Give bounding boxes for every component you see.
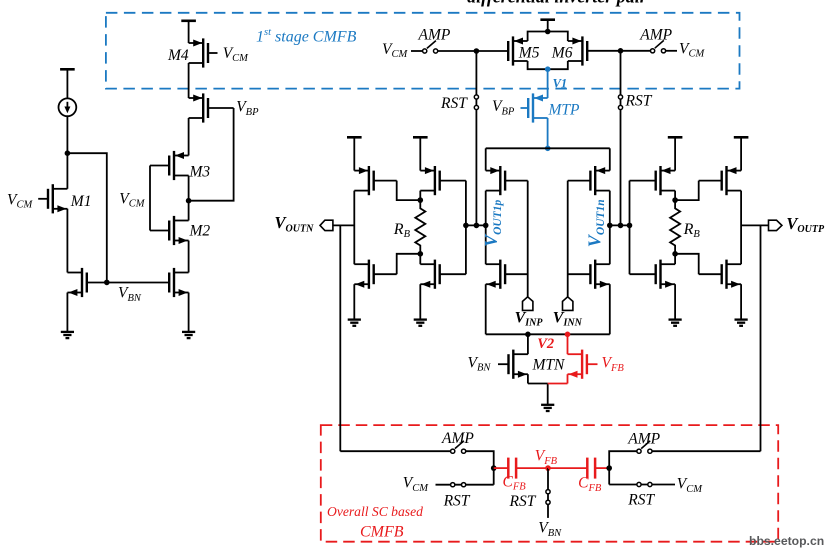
- wire M6 gate to AMP switch right: [587, 50, 650, 52]
- ground bias right: [182, 331, 195, 333]
- ground bias left: [61, 331, 74, 333]
- wire right outer PMOS gate to RB top: [675, 181, 699, 201]
- wire VBP gate to diode node: [189, 108, 234, 201]
- supply bar left inner: [413, 136, 428, 139]
- wire left inner gate column: [465, 181, 467, 275]
- wire AMP switch right to VCM: [666, 50, 677, 52]
- wire VOUTP drop: [760, 225, 762, 451]
- wire right outer NMOS to ground: [740, 284, 742, 319]
- wire VFB fet source stem red: [567, 374, 569, 383]
- wire M1 source down: [66, 209, 68, 273]
- wire left inner NMOS drain to RB: [419, 254, 421, 264]
- 1st stage CMFB dashed box: [106, 13, 740, 89]
- svg-text:M6: M6: [551, 44, 573, 61]
- wire right outer NMOS gate to RB bottom: [675, 254, 699, 274]
- wire cap corner right to AMP: [609, 451, 637, 484]
- wire outer PMOS gate to RB top: [397, 181, 421, 201]
- switch AMP top left: [423, 49, 427, 53]
- svg-text:M3: M3: [189, 164, 211, 181]
- wire M2 source down: [188, 241, 190, 273]
- wire right inner PMOS drain to RB: [674, 191, 676, 201]
- transistor inverter NMOS VOUT1p: [486, 263, 501, 265]
- port VOUTP: [769, 220, 782, 230]
- transistor left inner PMOS: [420, 170, 435, 172]
- wire AMP switch to M5 gate: [438, 50, 509, 52]
- transistor M1: [53, 188, 68, 190]
- wire pair top rail: [528, 32, 568, 42]
- svg-text:RST: RST: [627, 492, 655, 509]
- switch AMP bottom left: [451, 449, 455, 453]
- current source I1: [59, 98, 77, 116]
- wire left inner PMOS drain to RB: [419, 191, 421, 201]
- svg-text:M1: M1: [70, 193, 92, 210]
- node bias top: [65, 150, 71, 156]
- transistor MTP: [533, 97, 548, 99]
- wire RST left vertical: [475, 51, 477, 225]
- resistor RB left: [415, 200, 425, 254]
- transistor mirror left NMOS: [67, 272, 82, 274]
- ground left outer: [348, 318, 361, 320]
- wire input column VINN: [567, 181, 569, 297]
- wire pair bottom rail: [528, 61, 568, 69]
- transistor left inner NMOS: [420, 263, 435, 265]
- svg-text:RST: RST: [443, 493, 471, 510]
- wire mirror right source to ground: [188, 293, 190, 332]
- transistor right outer PMOS: [727, 170, 742, 172]
- transistor right outer NMOS: [727, 263, 742, 265]
- capacitor CFB left: [507, 458, 510, 479]
- transistor mirror right NMOS: [174, 272, 189, 274]
- svg-text:CMFB: CMFB: [360, 523, 404, 540]
- svg-text:AMP: AMP: [441, 430, 474, 447]
- node V1 rail: [545, 146, 551, 152]
- wire V1 blue: [547, 69, 549, 98]
- wire outer NMOS gate to RB bottom: [397, 254, 421, 274]
- wire supply to current source: [66, 69, 68, 98]
- wire node to mirror column: [67, 153, 106, 282]
- wire second stage top rail: [486, 147, 610, 149]
- switch AMP top right: [651, 49, 655, 53]
- svg-text:M4: M4: [167, 47, 189, 64]
- wire left outer NMOS to ground: [353, 284, 355, 319]
- transistor inverter PMOS VOUT1p: [486, 170, 501, 172]
- wire AMP to cap corner left: [466, 451, 494, 485]
- ground left inner: [414, 318, 427, 320]
- node right tap RST: [618, 223, 624, 229]
- wire tail rail red half: [548, 383, 568, 385]
- node V1 pair: [545, 66, 551, 72]
- supply bar M4: [181, 19, 196, 22]
- wire supply to M4: [188, 21, 190, 43]
- wire VOUTN drop: [339, 225, 341, 451]
- node pair top: [545, 29, 551, 35]
- supply bar right outer: [734, 136, 749, 139]
- Overall SC based CMFB dashed box: [321, 425, 778, 542]
- svg-text:V2: V2: [537, 336, 554, 352]
- wire VOUT1p NMOS source down: [485, 284, 487, 334]
- node cap right: [606, 465, 612, 471]
- switch RST bottom left: [451, 483, 455, 487]
- svg-text:M2: M2: [189, 222, 211, 239]
- wire rail to left PMOS source: [485, 148, 487, 170]
- transistor left outer PMOS: [354, 170, 369, 172]
- wire current source to node: [66, 116, 68, 153]
- wire VFB fet drain stem red: [567, 334, 569, 354]
- node VFB: [545, 465, 551, 471]
- wire tail rail black half: [528, 383, 548, 385]
- wire right inner gate column: [629, 181, 631, 275]
- wire M4 drain to VBP fet: [188, 63, 190, 98]
- wire right outer output column: [740, 191, 742, 265]
- node VBN: [104, 280, 110, 286]
- transistor M5: [513, 40, 528, 42]
- wire VOUT1n output column: [609, 191, 611, 265]
- svg-text:AMP: AMP: [627, 431, 660, 448]
- port VOUTN: [320, 220, 333, 230]
- wire left inner NMOS to ground: [419, 284, 421, 319]
- wire rail to right PMOS source: [609, 148, 611, 170]
- node VFB fet drain red: [565, 332, 571, 338]
- wire cap right red tail: [595, 467, 609, 469]
- node right gate tap: [627, 223, 633, 229]
- wire MTN source stem: [527, 374, 529, 383]
- node left tap output: [483, 223, 489, 229]
- transistor M4: [189, 42, 204, 44]
- svg-text:RST: RST: [625, 93, 653, 110]
- node RB right bottom: [672, 251, 678, 257]
- transistor left outer NMOS: [354, 263, 369, 265]
- node RST left top: [474, 48, 480, 54]
- switch RST middle: [546, 490, 550, 494]
- transistor VFB fet: [568, 353, 583, 355]
- ground right outer: [735, 318, 748, 320]
- wire RST row right: [609, 484, 675, 486]
- transistor VBP fet: [189, 97, 204, 99]
- svg-text:MTP: MTP: [548, 101, 581, 118]
- transistor inverter PMOS VOUT1n: [595, 170, 610, 172]
- wire cap left to VFB red: [516, 467, 548, 469]
- transistor MTN: [513, 353, 528, 355]
- wire node to M1 drain: [66, 153, 68, 189]
- wire AMP right to VOUTP drop: [652, 450, 761, 452]
- wire VFB to VBN terminal: [547, 468, 549, 518]
- wire mirror left source to ground: [66, 293, 68, 332]
- wire VBP drain to M3 source: [188, 118, 190, 156]
- transistor right inner PMOS: [661, 170, 676, 172]
- wire VOUT1n NMOS source down: [609, 284, 611, 334]
- svg-text:1st stage CMFB: 1st stage CMFB: [256, 27, 357, 46]
- wire second stage bottom rail V2: [486, 333, 610, 335]
- svg-text:bbs.eetop.cn: bbs.eetop.cn: [749, 534, 824, 548]
- node left gate tap: [463, 223, 469, 229]
- capacitor CFB right: [586, 458, 589, 479]
- wire RST right vertical: [620, 51, 622, 226]
- ground tail: [541, 404, 554, 406]
- wire right tap to VOUT1n: [610, 224, 630, 226]
- wire supply to pair node: [547, 20, 549, 32]
- svg-text:AMP: AMP: [418, 26, 451, 43]
- port VINN: [563, 297, 573, 311]
- svg-text:AMP: AMP: [639, 26, 672, 43]
- transistor M2: [174, 220, 189, 222]
- wire VOUTN to AMP switch: [340, 450, 450, 452]
- transistor M3: [174, 155, 189, 157]
- svg-text:M5: M5: [518, 44, 540, 61]
- supply bar bias: [60, 68, 75, 71]
- ground right inner: [669, 318, 682, 320]
- switch RST bottom right: [637, 482, 641, 486]
- node left tap RST: [474, 223, 480, 229]
- switch RST right: [618, 95, 622, 99]
- node cap left: [491, 465, 497, 471]
- wire gate rail M3 M2: [149, 166, 151, 231]
- supply bar right inner: [668, 136, 683, 139]
- node RST right top: [618, 48, 624, 54]
- wire M3 drain to M2 drain: [188, 176, 190, 221]
- svg-text:MTN: MTN: [532, 356, 567, 373]
- node right tap output: [607, 223, 613, 229]
- wire MTP drain blue: [547, 118, 549, 148]
- wire right inner NMOS to ground: [674, 284, 676, 319]
- port VINP: [523, 297, 533, 311]
- switch RST left: [474, 95, 478, 99]
- wire input column VINP: [527, 181, 529, 297]
- wire tail ground stem: [547, 384, 549, 405]
- wire cap left red: [494, 467, 509, 469]
- node RB left top: [418, 197, 424, 203]
- transistor right inner NMOS: [661, 263, 676, 265]
- wire left outer output column: [353, 191, 355, 265]
- transistor inverter NMOS VOUT1n: [595, 263, 610, 265]
- svg-text:V1: V1: [553, 77, 568, 91]
- transistor M6: [568, 40, 583, 42]
- switch AMP bottom right: [637, 449, 641, 453]
- svg-text:RST: RST: [509, 493, 537, 510]
- wire VOUTP tap: [741, 224, 768, 226]
- node MTN drain: [525, 332, 531, 338]
- supply bar M5 M6: [540, 18, 555, 21]
- wire VCM RST row left: [436, 484, 494, 486]
- wire VOUT1p output column: [485, 191, 487, 265]
- svg-text:differential inverter pair: differential inverter pair: [467, 0, 648, 7]
- wire MTN drain stem: [527, 334, 529, 354]
- resistor RB right: [670, 200, 680, 254]
- svg-text:RST: RST: [440, 95, 468, 112]
- wire VCM to AMP switch left: [411, 50, 423, 52]
- wire right inner NMOS drain to RB: [674, 254, 676, 264]
- wire VOUTN tap: [333, 224, 354, 226]
- supply bar left outer: [347, 136, 362, 139]
- wire VFB to cap right red: [548, 467, 587, 469]
- wire left tap to VOUT1p: [466, 224, 486, 226]
- svg-text:Overall SC based: Overall SC based: [327, 504, 423, 519]
- node RB left bottom: [418, 251, 424, 257]
- node M3 M2 junction: [186, 198, 192, 204]
- node RB right top: [672, 197, 678, 203]
